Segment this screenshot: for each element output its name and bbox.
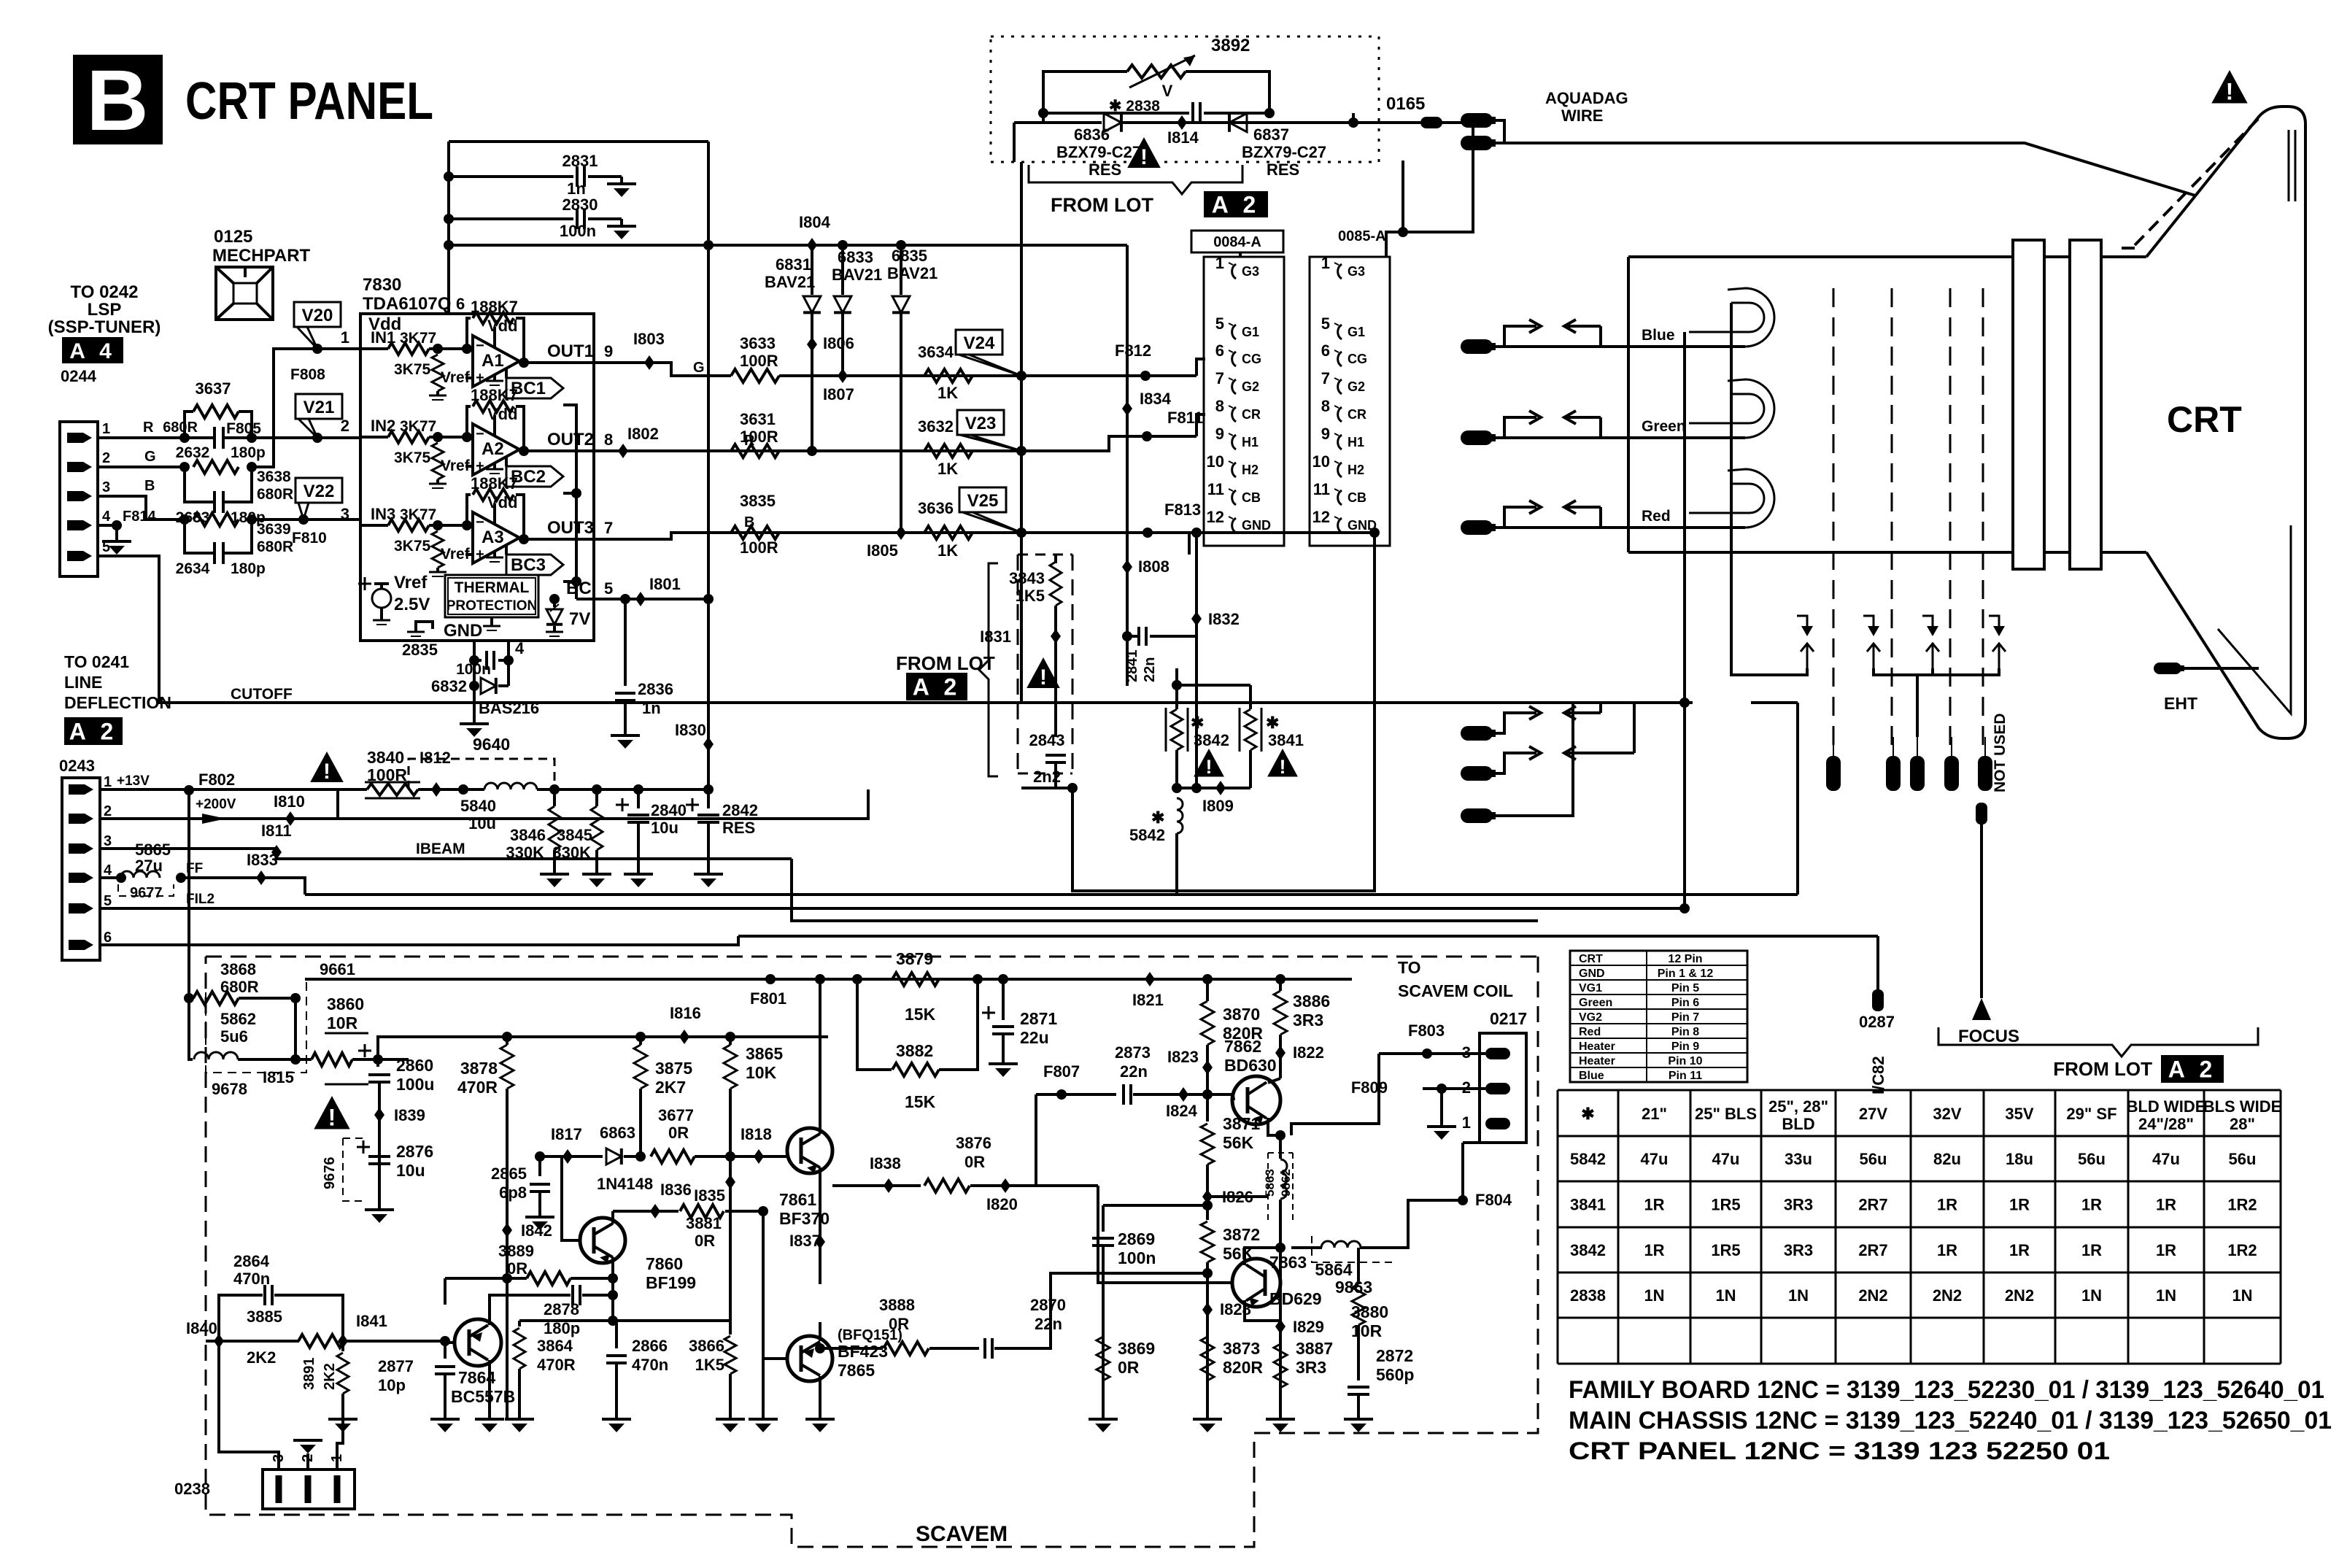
terminal lower 1 — [1461, 726, 1493, 741]
wire 7860 collector — [611, 1211, 614, 1224]
svg-text:I816: I816 — [670, 1004, 701, 1022]
svg-text:GND: GND — [1579, 968, 1605, 980]
wire 0165 down to kine connector — [1386, 123, 1473, 257]
svg-text:680R: 680R — [163, 420, 198, 436]
terminal lower 3 — [1461, 808, 1493, 823]
svg-text:7863: 7863 — [1269, 1253, 1307, 1272]
svg-text:F809: F809 — [1351, 1078, 1388, 1097]
node I814 — [1177, 115, 1187, 130]
diode 6832 BAS216 — [474, 660, 479, 686]
wire OUT2 — [519, 449, 594, 452]
svg-text:I837: I837 — [789, 1232, 821, 1250]
svg-text:8: 8 — [1321, 397, 1330, 415]
svg-text:FROM LOT: FROM LOT — [1051, 194, 1153, 216]
terminal EHT — [2154, 663, 2181, 674]
wire 7861 collector — [819, 979, 821, 1134]
svg-text:10u: 10u — [468, 814, 496, 833]
svg-text:WIRE: WIRE — [1561, 107, 1603, 125]
svg-text:330K: 330K — [506, 843, 544, 862]
svg-text:3885: 3885 — [247, 1308, 282, 1326]
svg-text:BF199: BF199 — [646, 1273, 696, 1292]
svg-text:3864: 3864 — [537, 1337, 573, 1355]
capacitor 2841 22n — [1126, 636, 1129, 686]
flag V24 — [956, 330, 1002, 355]
svg-text:3879: 3879 — [896, 949, 933, 968]
svg-text:I835: I835 — [694, 1186, 725, 1205]
capacitor 2842 RES — [703, 784, 714, 795]
svg-text:3R3: 3R3 — [1296, 1358, 1326, 1377]
CRT aquadag dashed inner — [2122, 247, 2135, 250]
svg-text:1R: 1R — [1937, 1196, 1957, 1214]
svg-text:!: ! — [1140, 145, 1148, 169]
svg-text:CRT PANEL: CRT PANEL — [185, 72, 433, 131]
svg-text:100n: 100n — [560, 222, 596, 240]
ground F809 — [1440, 1089, 1443, 1127]
svg-text:!: ! — [323, 760, 330, 784]
svg-text:1N: 1N — [2156, 1286, 2176, 1305]
spark gap arrows mid — [1797, 616, 1807, 626]
svg-text:I817: I817 — [551, 1125, 582, 1143]
svg-text:1R5: 1R5 — [1711, 1241, 1740, 1259]
ground under 2876 — [365, 1208, 394, 1211]
svg-text:CRT: CRT — [2167, 399, 2242, 440]
CRT pin assignment table — [1570, 951, 1747, 1082]
dashed box 9678 — [206, 978, 306, 1073]
svg-text:3: 3 — [102, 479, 110, 495]
svg-text:I808: I808 — [1138, 557, 1169, 576]
wire zener row — [1014, 121, 1043, 124]
svg-text:BAV21: BAV21 — [832, 266, 882, 284]
svg-text:32V: 32V — [1933, 1105, 1961, 1123]
terminal Red — [1461, 520, 1493, 535]
svg-text:22n: 22n — [1120, 1062, 1148, 1081]
wire 5863 bottom — [1279, 1200, 1282, 1284]
deflection yoke bar 1 — [2013, 240, 2044, 569]
svg-text:V: V — [1162, 82, 1173, 100]
svg-text:F807: F807 — [1043, 1062, 1080, 1081]
svg-text:5u6: 5u6 — [220, 1027, 248, 1046]
svg-text:1N4148: 1N4148 — [597, 1175, 653, 1193]
svg-text:2: 2 — [341, 417, 349, 435]
node I806 — [807, 337, 817, 352]
svg-text:FAMILY BOARD 12NC = 3139_123_5: FAMILY BOARD 12NC = 3139_123_52230_01 / … — [1569, 1376, 2324, 1404]
svg-text:7830: 7830 — [363, 275, 401, 295]
wire F813 column — [1188, 533, 1191, 555]
svg-text:BCl: BCl — [566, 579, 596, 598]
svg-text:2871: 2871 — [1020, 1009, 1057, 1028]
svg-text:I820: I820 — [986, 1195, 1018, 1213]
svg-text:I/C82: I/C82 — [1869, 1056, 1887, 1094]
svg-text:3840: 3840 — [367, 748, 404, 767]
svg-text:CR: CR — [1242, 407, 1261, 422]
svg-text:12: 12 — [1207, 508, 1224, 526]
connector 0244 — [60, 422, 98, 576]
svg-text:3637: 3637 — [196, 379, 231, 398]
heater supply vertical 2 — [1731, 303, 1751, 675]
svg-text:BF423: BF423 — [838, 1342, 888, 1361]
svg-text:10u: 10u — [396, 1161, 425, 1180]
svg-text:47u: 47u — [1641, 1150, 1669, 1168]
wire aquadag node vertical — [1020, 162, 1023, 703]
IC pin6 Vdd wire — [447, 245, 450, 314]
svg-text:25" BLS: 25" BLS — [1695, 1105, 1757, 1123]
svg-text:7862: 7862 — [1224, 1037, 1261, 1056]
svg-text:2860: 2860 — [396, 1056, 433, 1075]
node F811 — [1142, 431, 1152, 441]
svg-text:3632: 3632 — [918, 417, 954, 436]
dashed box 9676 — [343, 1138, 367, 1201]
node I822 — [1275, 1046, 1286, 1060]
svg-text:2632: 2632 — [176, 444, 210, 461]
node I803 — [644, 355, 654, 370]
transistor 7865 BF423 — [787, 1336, 832, 1381]
node I831 — [1051, 629, 1061, 644]
svg-text:9: 9 — [1215, 425, 1224, 443]
svg-text:1N: 1N — [1788, 1286, 1809, 1305]
node F802 — [184, 785, 194, 795]
svg-text:1n: 1n — [642, 699, 661, 717]
node I829 — [1279, 1284, 1282, 1419]
svg-text:2866: 2866 — [632, 1337, 668, 1355]
flag V21 — [295, 394, 342, 419]
svg-text:11: 11 — [1313, 480, 1330, 498]
ground under 2871 — [989, 1062, 1018, 1065]
op-amp A2 ground stub — [493, 463, 496, 469]
svg-text:DEFLECTION: DEFLECTION — [64, 693, 171, 712]
svg-text:9661: 9661 — [320, 960, 355, 978]
connector 0244 pin 4 — [67, 520, 92, 530]
dashed box 3843/2843 — [1017, 555, 1019, 773]
svg-text:I805: I805 — [867, 541, 898, 560]
svg-text:3R3: 3R3 — [1293, 1011, 1323, 1030]
svg-text:I811: I811 — [261, 822, 292, 840]
svg-text:BZX79-C27: BZX79-C27 — [1056, 143, 1141, 161]
op-amp A2 — [473, 424, 519, 475]
op-amp A3 — [473, 512, 519, 563]
svg-text:3891: 3891 — [301, 1358, 317, 1391]
svg-text:1R: 1R — [2156, 1196, 2176, 1214]
svg-text:1N: 1N — [1644, 1286, 1664, 1305]
svg-text:3878: 3878 — [460, 1059, 498, 1078]
svg-text:1N: 1N — [2232, 1286, 2252, 1305]
svg-text:2N2: 2N2 — [2005, 1286, 2034, 1305]
op-amp A1 — [473, 336, 519, 387]
flag BC3 — [505, 545, 508, 555]
svg-text:1R: 1R — [2081, 1196, 2102, 1214]
svg-text:1K5: 1K5 — [1016, 587, 1045, 605]
svg-text:I809: I809 — [1202, 797, 1234, 815]
svg-text:1K5: 1K5 — [695, 1356, 724, 1374]
svg-text:BAV21: BAV21 — [765, 273, 815, 291]
bus risers right — [1796, 703, 1799, 895]
svg-text:V21: V21 — [304, 398, 335, 417]
dashed box 9640 — [409, 759, 554, 789]
ground under 2836 — [611, 734, 640, 737]
flag V23 — [957, 410, 1004, 435]
svg-text:0287: 0287 — [1859, 1013, 1895, 1031]
svg-text:+: + — [476, 547, 484, 563]
svg-text:9676: 9676 — [322, 1157, 338, 1190]
dashed SCAVEM enclosure — [206, 956, 1538, 958]
wire aquadag — [1493, 120, 1504, 143]
svg-text:1: 1 — [102, 421, 110, 437]
transistor 7860 BF199 — [580, 1218, 625, 1263]
wire BCL to I830 — [660, 598, 708, 600]
svg-text:5: 5 — [1321, 314, 1330, 333]
grounds scavem right — [1089, 1418, 1118, 1421]
svg-text:25", 28": 25", 28" — [1768, 1097, 1828, 1116]
svg-text:A3: A3 — [482, 528, 504, 547]
node I817 — [540, 1155, 603, 1158]
svg-text:10p: 10p — [378, 1376, 406, 1394]
flag V25 — [959, 487, 1006, 512]
svg-text:3: 3 — [341, 505, 349, 523]
grounds row scavem — [341, 1414, 344, 1419]
svg-text:0244: 0244 — [61, 367, 97, 385]
svg-text:1K: 1K — [937, 384, 958, 402]
svg-text:0165: 0165 — [1386, 94, 1425, 114]
focus bracket — [1938, 1027, 2258, 1057]
svg-text:1N: 1N — [2081, 1286, 2102, 1305]
svg-text:I807: I807 — [823, 385, 854, 403]
svg-text:6: 6 — [456, 295, 465, 313]
svg-text:4: 4 — [102, 509, 111, 525]
svg-text:G1: G1 — [1348, 325, 1365, 339]
svg-text:I824: I824 — [1166, 1102, 1198, 1120]
svg-text:22n: 22n — [1035, 1315, 1062, 1333]
sheet ref A2 right — [2161, 1055, 2224, 1083]
svg-text:2841: 2841 — [1124, 650, 1140, 683]
svg-text:F802: F802 — [198, 771, 235, 789]
bus wire 4 — [738, 935, 1878, 938]
wire 7860 emitter — [611, 1257, 614, 1278]
svg-text:NOT USED: NOT USED — [1992, 713, 2009, 792]
node I826 — [1202, 1189, 1213, 1204]
svg-text:2838: 2838 — [1570, 1286, 1606, 1305]
connector 0243 pin 2 — [69, 814, 93, 824]
svg-text:3K75: 3K75 — [394, 538, 431, 555]
svg-text:2n2: 2n2 — [1033, 768, 1061, 786]
sheet ref A2 middle — [906, 673, 967, 700]
svg-text:H2: H2 — [1242, 463, 1259, 477]
svg-text:−: − — [476, 514, 484, 530]
svg-text:5: 5 — [104, 893, 112, 909]
op-amp A3 ground stub — [493, 552, 496, 557]
svg-text:6: 6 — [1321, 341, 1330, 360]
wire 0238 to scavem — [306, 1453, 309, 1469]
svg-text:0125: 0125 — [214, 227, 252, 247]
wire 7863 emitter collector — [1245, 1248, 1280, 1265]
svg-text:F814: F814 — [123, 509, 156, 525]
svg-text:GND: GND — [444, 621, 482, 641]
node I801 — [635, 592, 646, 606]
svg-text:I840: I840 — [186, 1319, 217, 1337]
svg-text:1K: 1K — [937, 541, 958, 560]
svg-text:3841: 3841 — [1268, 731, 1304, 749]
svg-text:G: G — [144, 449, 156, 465]
terminal Green — [1461, 430, 1493, 445]
svg-text:12 Pin: 12 Pin — [1668, 953, 1702, 965]
svg-text:100u: 100u — [396, 1075, 434, 1094]
svg-text:Pin 8: Pin 8 — [1671, 1026, 1699, 1038]
wire 2843 junction — [1021, 787, 1056, 789]
svg-text:FOCUS: FOCUS — [1958, 1027, 2019, 1046]
svg-text:2864: 2864 — [233, 1252, 270, 1270]
svg-text:BC557B: BC557B — [451, 1387, 515, 1406]
node F814 on pin4 — [98, 524, 119, 527]
connector 0243 pin 6 — [69, 940, 93, 950]
node F801 — [765, 974, 776, 984]
svg-text:33u: 33u — [1785, 1150, 1812, 1168]
svg-text:9863: 9863 — [1335, 1278, 1372, 1297]
brace FROM LOT middle — [979, 563, 998, 776]
node I805 — [896, 525, 906, 540]
wire 1046 column — [762, 1211, 765, 1419]
svg-text:9640: 9640 — [473, 735, 510, 754]
svg-text:2872: 2872 — [1376, 1346, 1413, 1365]
capacitor 2876 10u — [357, 1146, 370, 1148]
svg-text:+200V: +200V — [196, 797, 236, 812]
svg-text:2K2: 2K2 — [247, 1348, 276, 1367]
svg-text:2831: 2831 — [562, 152, 598, 170]
svg-text:9862: 9862 — [1279, 1169, 1293, 1197]
svg-text:100n: 100n — [1118, 1248, 1156, 1267]
spark gap step wires — [1751, 668, 1807, 675]
svg-text:I806: I806 — [823, 334, 854, 352]
svg-text:1R: 1R — [1937, 1241, 1957, 1259]
CRT neck top — [1628, 255, 2146, 258]
svg-text:2865: 2865 — [491, 1165, 527, 1183]
svg-text:3887: 3887 — [1296, 1339, 1333, 1358]
svg-text:I830: I830 — [675, 721, 706, 739]
svg-text:3636: 3636 — [918, 499, 954, 517]
svg-text:1R: 1R — [2081, 1241, 2102, 1259]
svg-text:0217: 0217 — [1490, 1009, 1527, 1028]
terminal aquadag 1 — [1461, 113, 1493, 128]
dashed box 9863 — [1312, 1236, 1393, 1262]
svg-text:10: 10 — [1312, 452, 1330, 471]
node I839 — [374, 1108, 384, 1122]
svg-text:I829: I829 — [1293, 1318, 1324, 1336]
svg-text:3K75: 3K75 — [394, 361, 431, 378]
sheet ref A4 — [62, 337, 123, 363]
thermal protection block — [445, 575, 538, 617]
svg-text:+: + — [476, 370, 484, 386]
connector 0084-A outline — [1204, 257, 1284, 546]
svg-text:21": 21" — [1642, 1105, 1667, 1123]
capacitor 2634 180p — [185, 520, 214, 553]
svg-text:Pin 7: Pin 7 — [1671, 1011, 1699, 1024]
svg-text:2836: 2836 — [638, 680, 673, 698]
flag BC1 — [505, 368, 508, 378]
svg-text:BAS216: BAS216 — [479, 699, 539, 717]
capacitor 2860 100u — [358, 1050, 371, 1052]
svg-text:1R: 1R — [2009, 1241, 2030, 1259]
bus wire 2 — [719, 907, 1685, 910]
svg-text:GND: GND — [1242, 518, 1271, 533]
svg-text:3866: 3866 — [689, 1337, 724, 1355]
wire 7861 emitter — [819, 1167, 821, 1284]
dashed enclosure from LOT — [991, 36, 1379, 162]
svg-text:12: 12 — [1312, 508, 1330, 526]
wire F811 to pin8 — [1196, 414, 1205, 436]
svg-text:LSP: LSP — [88, 300, 122, 320]
svg-text:0R: 0R — [668, 1124, 689, 1142]
brace FROM LOT — [1029, 165, 1242, 194]
svg-text:1R: 1R — [1644, 1241, 1664, 1259]
sheet ref A2 top — [1204, 191, 1268, 217]
svg-text:7: 7 — [1321, 369, 1330, 387]
node I816 — [679, 1030, 689, 1044]
svg-text:3846: 3846 — [510, 826, 546, 844]
svg-text:3841: 3841 — [1570, 1196, 1606, 1214]
svg-text:3633: 3633 — [740, 334, 776, 352]
svg-text:3872: 3872 — [1223, 1225, 1260, 1244]
svg-text:82u: 82u — [1933, 1150, 1961, 1168]
svg-text:2: 2 — [102, 450, 110, 466]
svg-text:I818: I818 — [741, 1125, 772, 1143]
svg-text:2842: 2842 — [722, 801, 758, 819]
svg-text:BF370: BF370 — [779, 1209, 830, 1228]
svg-text:I833: I833 — [247, 851, 278, 869]
bus wire 1 — [305, 893, 1798, 896]
wire 0287 drop — [1876, 936, 1879, 992]
svg-text:✱: ✱ — [1191, 714, 1204, 732]
svg-text:G2: G2 — [1242, 379, 1259, 394]
node F807 — [1036, 1093, 1116, 1096]
wire 7862 emitter — [1268, 1118, 1280, 1135]
svg-text:3677: 3677 — [658, 1106, 694, 1124]
resistor 3638 680R — [193, 460, 239, 474]
svg-text:F813: F813 — [1164, 501, 1201, 519]
connector 0244 pin 2 — [67, 462, 92, 472]
mechpart symbol — [216, 267, 273, 320]
transistor 7861 BF370 — [787, 1128, 832, 1173]
svg-text:CG: CG — [1242, 352, 1261, 366]
svg-text:A 2: A 2 — [1212, 192, 1261, 218]
svg-text:3882: 3882 — [896, 1041, 933, 1060]
capacitor 2840 10u — [633, 784, 643, 795]
svg-text:10R: 10R — [1351, 1321, 1383, 1340]
wire 7863 base — [1036, 1184, 1098, 1187]
svg-text:BLD WIDE: BLD WIDE — [2127, 1097, 2206, 1116]
svg-text:0R: 0R — [889, 1315, 909, 1333]
node I802 — [618, 444, 628, 458]
connector 0243 pin 1 — [69, 784, 93, 795]
CRT inner screen top mark — [2288, 130, 2290, 201]
svg-text:I831: I831 — [980, 627, 1011, 646]
svg-text:3631: 3631 — [740, 410, 776, 428]
svg-text:3634: 3634 — [918, 343, 954, 361]
svg-text:CG: CG — [1348, 352, 1367, 366]
svg-text:9: 9 — [1321, 425, 1330, 443]
svg-text:6863: 6863 — [600, 1124, 635, 1142]
svg-text:2873: 2873 — [1115, 1043, 1151, 1062]
node F805 — [312, 433, 322, 443]
ground at 0244 pin4 — [115, 525, 118, 541]
warning triangle scavem1 — [314, 1096, 349, 1129]
svg-text:7860: 7860 — [646, 1254, 683, 1273]
svg-text:Blue: Blue — [1642, 327, 1675, 344]
warning triangle 3842 — [1194, 749, 1224, 777]
svg-text:I802: I802 — [627, 425, 659, 443]
spark gap Red — [1504, 507, 1536, 528]
sheet ref A2 left — [64, 717, 123, 745]
svg-text:PROTECTION: PROTECTION — [446, 598, 538, 614]
svg-text:2876: 2876 — [396, 1142, 433, 1161]
svg-text:15K: 15K — [905, 1092, 936, 1111]
svg-text:0R: 0R — [695, 1232, 715, 1250]
